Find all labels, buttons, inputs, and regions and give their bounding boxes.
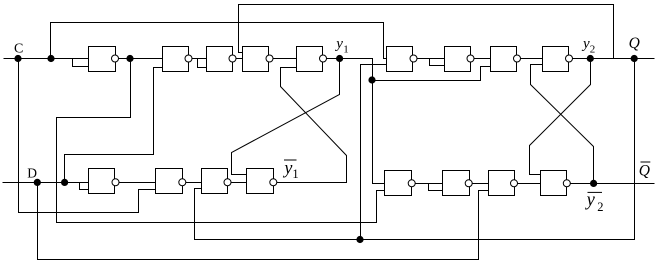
wire D branch up to G2 lower input [65, 68, 163, 183]
wire Q feedback over top to G4 upper input [239, 5, 614, 59]
svg-text:2: 2 [597, 200, 603, 214]
junction node G1 output [126, 55, 133, 62]
wire Q feedback up to G6 lower input [361, 65, 387, 240]
junction node after C [47, 55, 54, 62]
wire G8 output to G9 [517, 58, 543, 60]
svg-text:D: D [27, 165, 37, 180]
wire G1 output to G2 [115, 58, 163, 60]
wire G4 output to G5 [270, 58, 297, 60]
NAND gate B1 [89, 169, 115, 194]
wire B1 tied-input jog [80, 183, 89, 190]
svg-text:y: y [581, 36, 590, 52]
junction node D branch [61, 179, 68, 186]
wire G9 output y2 to Q output [569, 58, 655, 60]
wire D main input [3, 182, 89, 184]
wire B8 output y2-bar to Q-bar output [567, 183, 655, 185]
wire C branch up over top to G6 center input [51, 23, 387, 59]
wire y2-bar cross-coupling up to G9 lower input [531, 65, 594, 184]
wire G1 tied-input jog [73, 59, 89, 67]
svg-text:Q: Q [629, 35, 640, 52]
NAND gate G5 [297, 47, 323, 72]
svg-text:y: y [334, 36, 343, 52]
svg-text:C: C [14, 41, 23, 56]
NAND gate G1 [89, 47, 116, 72]
junction node D [34, 179, 41, 186]
svg-text:y: y [585, 190, 596, 210]
NAND gate G4 [243, 47, 269, 72]
overline of y1-bar [284, 159, 297, 161]
svg-text:1: 1 [343, 43, 349, 55]
NAND gate B7 [489, 171, 515, 196]
svg-text:Q: Q [639, 162, 650, 179]
junction node y1 branch [368, 76, 375, 83]
NAND gate G9 [543, 47, 569, 72]
junction node C [14, 55, 21, 62]
wire G2-G3 tied-input jog [198, 59, 207, 68]
NAND gate B8 [541, 171, 567, 196]
NAND gate B6 [443, 171, 470, 196]
wire G3 output to G4 [233, 58, 243, 60]
junction node Q feedback [356, 236, 363, 243]
NAND gate G2 [163, 47, 189, 72]
wire y1 over to G8 lower input [373, 67, 491, 81]
wire y1 cross-coupling diagonal down to B4 upper input [232, 59, 340, 175]
junction node y2-bar [590, 180, 597, 187]
wire Q feedback down and left to B3 lower input [195, 59, 635, 240]
wire G1 output branch down-around to B5 lower input [57, 59, 385, 223]
NAND gate B3 [202, 169, 228, 194]
wire C branch down to B2 lower input [19, 59, 156, 213]
wire G6-G7 tied-input jog [430, 59, 445, 66]
wire y1 down to B5 center input [373, 81, 385, 184]
svg-text:1: 1 [292, 167, 298, 181]
overline of Q-bar [641, 161, 651, 163]
wire D branch down-around to B7 lower input [38, 183, 489, 260]
overline of y2-bar [588, 191, 603, 193]
NAND gate B5 [385, 171, 412, 196]
svg-text:y: y [282, 158, 292, 178]
wire B3 output to B4 [228, 182, 247, 184]
NAND gate B4 [247, 169, 274, 194]
wire y1-bar cross-coupling from B4 output up to G5 lower input [274, 68, 347, 183]
wire B7 output to B8 [515, 183, 541, 185]
NAND gate B2 [156, 169, 183, 194]
NAND gate G3 [207, 47, 233, 72]
svg-text:2: 2 [590, 43, 596, 55]
NAND gate G6 [387, 47, 413, 72]
wire C main input [4, 58, 89, 60]
wire G2 output to G3 [189, 58, 207, 60]
wire B6 output to B7 [469, 183, 489, 185]
wire B5 output to B6 [412, 183, 443, 185]
wire G7 output to G8 [471, 58, 491, 60]
junction node Q [631, 55, 638, 62]
wire B1 output to B2 [116, 182, 156, 184]
NAND gate G8 [491, 47, 517, 72]
junction node y2 [587, 55, 594, 62]
wire G6 output to G7 [414, 58, 445, 60]
NAND gate G7 [445, 47, 471, 72]
wire B5-B6 tied-input jog [429, 184, 443, 191]
wire B2 output to B3 [183, 182, 202, 184]
wire y2 cross-coupling diagonal down to B8 upper input [530, 59, 591, 175]
wire G5 output y1 to corner [323, 59, 373, 81]
junction node y1 [336, 55, 343, 62]
